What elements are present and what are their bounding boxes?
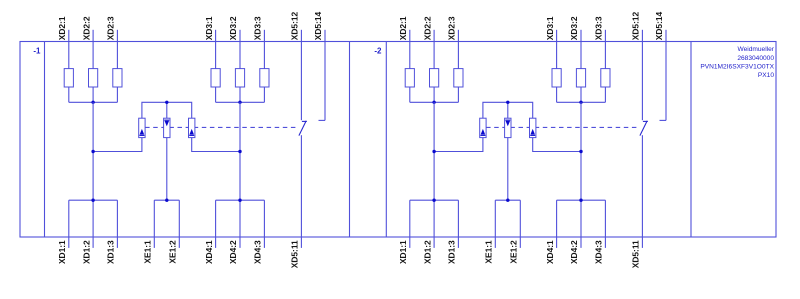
node -2 junction right arrester / XD3:2 line xyxy=(579,150,582,153)
svg-text:PVN1M2I6SXF3V1O0TX: PVN1M2I6SXF3V1O0TX xyxy=(700,64,774,71)
node -1 junction left arrester / XD2:2 line xyxy=(91,150,94,153)
block -1 right enclosure line xyxy=(349,42,351,238)
terminal label -1 XD5:11 xyxy=(290,240,300,268)
wire -2 R2 bottom lead xyxy=(433,87,435,102)
wire -1 XD4 bottom bus xyxy=(216,199,265,201)
terminal label -1 XD1:1 xyxy=(57,240,67,264)
wire -2 XD3:3 terminal stub xyxy=(604,30,606,69)
wire -2 bus joining XD3 resistors xyxy=(557,101,606,103)
surge arrester -2 F3 (up) xyxy=(530,118,536,137)
wire -2 R5 bottom lead xyxy=(580,87,582,102)
wire -2 XD3:1 terminal stub xyxy=(556,30,558,69)
resistor -1 R5 xyxy=(235,69,244,87)
svg-text:XD4:2: XD4:2 xyxy=(228,240,238,264)
svg-text:XD5:14: XD5:14 xyxy=(654,11,664,40)
svg-text:XD1:3: XD1:3 xyxy=(447,240,457,264)
terminal label -1 XD2:3 xyxy=(106,16,116,40)
wire -1 XD3:2 terminal stub xyxy=(239,30,241,69)
wire -1 XD5:11 terminal line xyxy=(300,135,302,248)
wire -2 XD5:11 terminal line xyxy=(641,135,643,248)
svg-text:XD3:3: XD3:3 xyxy=(253,16,263,40)
svg-text:XD2:1: XD2:1 xyxy=(57,16,67,40)
wire -1 right arrester to XD3:2 line xyxy=(192,138,240,152)
block -2 right enclosure line xyxy=(690,42,692,238)
svg-text:Weidmueller: Weidmueller xyxy=(737,46,774,53)
wire -1 dashed trip link to disconnect switch xyxy=(145,126,297,128)
terminal label -1 XE1:2 xyxy=(168,240,178,264)
svg-text:-1: -1 xyxy=(33,46,41,55)
wire -2 XD5:12 terminal line xyxy=(641,30,643,120)
node -1 junction XE1 bus xyxy=(165,199,168,202)
svg-text:XD1:1: XD1:1 xyxy=(398,240,408,264)
svg-text:XD1:2: XD1:2 xyxy=(81,240,91,264)
wire -2 XE1 bottom bus xyxy=(495,199,520,201)
resistor -2 R3 xyxy=(454,69,463,87)
resistor -2 R4 xyxy=(552,69,561,87)
svg-text:XD4:3: XD4:3 xyxy=(594,240,604,264)
wire -2 middle arrester to XE1 bus xyxy=(507,138,509,201)
svg-text:XE1:1: XE1:1 xyxy=(143,240,153,264)
resistor -2 R1 xyxy=(405,69,414,87)
wire -1 XD4:3 terminal leg xyxy=(263,200,265,248)
wire -1 XD1:1 terminal leg xyxy=(68,200,70,248)
terminal label -1 XD1:2 xyxy=(81,240,91,264)
wire -1 middle arrester to XE1 bus xyxy=(166,138,168,201)
resistor -2 R6 xyxy=(601,69,610,87)
node -1 junction XD1 bus xyxy=(91,199,94,202)
node -2 junction XD4 bus xyxy=(579,199,582,202)
wire -2 XD2:2 terminal stub xyxy=(433,30,435,69)
node -1 junction XD2 bus / XD1:2 line xyxy=(91,101,94,104)
wire -1 bus joining XD2 resistors xyxy=(69,101,118,103)
terminal label -1 XD2:1 xyxy=(57,16,67,40)
switch -2 disconnect contact blade xyxy=(640,121,648,136)
device label -1 xyxy=(33,46,41,55)
terminal label -2 XD2:3 xyxy=(447,16,457,40)
terminal label -2 XD3:2 xyxy=(569,16,579,40)
wire -2 right arrester to XD3:2 line xyxy=(533,138,581,152)
svg-text:-2: -2 xyxy=(374,46,382,55)
terminal label -2 XD1:3 xyxy=(447,240,457,264)
svg-text:XD2:2: XD2:2 xyxy=(422,16,432,40)
wire -1 XD2:2-XD1:2 vertical line xyxy=(92,102,94,248)
svg-text:XD4:2: XD4:2 xyxy=(569,240,579,264)
svg-text:XD2:3: XD2:3 xyxy=(447,16,457,40)
wire -2 XD3:2 terminal stub xyxy=(580,30,582,69)
wire -2 XD2:2-XD1:2 vertical line xyxy=(433,102,435,248)
svg-text:XD2:2: XD2:2 xyxy=(81,16,91,40)
surge arrester -1 F3 (up) xyxy=(189,118,195,137)
wire -1 XE1:1 terminal leg xyxy=(153,200,155,248)
part info text order number 2683040000 xyxy=(737,55,774,62)
terminal label -1 XD3:1 xyxy=(204,16,214,40)
node -2 junction left arrester / XD2:2 line xyxy=(432,150,435,153)
wire -1 XD2:3 terminal stub xyxy=(116,30,118,69)
terminal label -2 XD2:1 xyxy=(398,16,408,40)
wire -1 XD3:3 terminal stub xyxy=(263,30,265,69)
svg-text:XD3:2: XD3:2 xyxy=(569,16,579,40)
terminal label -2 XD5:11 xyxy=(631,240,641,268)
wire -2 arrester top bus xyxy=(483,102,533,118)
resistor -2 R5 xyxy=(576,69,585,87)
svg-text:XD1:3: XD1:3 xyxy=(106,240,116,264)
wire -2 XD5:14 terminal line xyxy=(660,30,667,121)
terminal label -1 XD2:2 xyxy=(81,16,91,40)
wire -1 R6 bottom lead xyxy=(263,87,265,102)
wire -1 arrester top bus xyxy=(142,102,192,118)
wire -2 R1 bottom lead xyxy=(409,87,411,102)
part info text type PVN1M2I6SXF3V1O0TX xyxy=(700,64,774,71)
node -1 junction XD4 bus xyxy=(238,199,241,202)
wire -2 XD4:3 terminal leg xyxy=(604,200,606,248)
wire -2 XD1:3 terminal leg xyxy=(457,200,459,248)
wire -2 XD4:1 terminal leg xyxy=(556,200,558,248)
switch -1 disconnect contact blade xyxy=(299,121,307,136)
terminal label -2 XE1:2 xyxy=(509,240,519,264)
svg-text:XE1:1: XE1:1 xyxy=(484,240,494,264)
svg-text:XD5:11: XD5:11 xyxy=(290,240,300,268)
node -1 junction XD3 bus / XD4:2 line xyxy=(238,101,241,104)
svg-text:XD4:1: XD4:1 xyxy=(545,240,555,264)
terminal label -2 XD1:1 xyxy=(398,240,408,264)
svg-text:XD2:1: XD2:1 xyxy=(398,16,408,40)
wire -2 XD3:2-XD4:2 vertical line xyxy=(580,102,582,248)
surge arrester -1 F2 (down) xyxy=(164,118,170,137)
svg-text:XE1:2: XE1:2 xyxy=(168,240,178,264)
svg-text:XD3:2: XD3:2 xyxy=(228,16,238,40)
terminal label -2 XD4:2 xyxy=(569,240,579,264)
terminal label -1 XD4:1 xyxy=(204,240,214,264)
svg-text:XD3:3: XD3:3 xyxy=(594,16,604,40)
surge arrester -2 F2 (down) xyxy=(505,118,511,137)
svg-text:XD2:3: XD2:3 xyxy=(106,16,116,40)
wire -1 XD2:2 terminal stub xyxy=(92,30,94,69)
resistor -1 R4 xyxy=(211,69,220,87)
device label -2 xyxy=(374,46,382,55)
svg-text:XD1:2: XD1:2 xyxy=(422,240,432,264)
wire -2 XD2:1 terminal stub xyxy=(409,30,411,69)
resistor -2 R2 xyxy=(430,69,439,87)
wire -2 left arrester to XD2:2 line xyxy=(434,138,483,152)
svg-text:XD5:12: XD5:12 xyxy=(631,11,641,40)
resistor -1 R3 xyxy=(113,69,122,87)
wire -1 XE1 bottom bus xyxy=(154,199,179,201)
terminal label -1 XD5:14 xyxy=(313,11,323,40)
terminal label -2 XE1:1 xyxy=(484,240,494,264)
part info text PX10 xyxy=(758,72,774,79)
node -2 junction XD1 bus xyxy=(432,199,435,202)
wire -1 bus joining XD3 resistors xyxy=(216,101,265,103)
terminal label -1 XE1:1 xyxy=(143,240,153,264)
wire -1 XD1:3 terminal leg xyxy=(116,200,118,248)
wire -2 R6 bottom lead xyxy=(604,87,606,102)
block -1 left enclosure line xyxy=(44,42,46,238)
terminal label -1 XD4:2 xyxy=(228,240,238,264)
wire -1 XD2:1 terminal stub xyxy=(68,30,70,69)
wire -1 R1 bottom lead xyxy=(68,87,70,102)
wire -1 XD5:12 terminal line xyxy=(300,30,302,120)
resistor -1 R6 xyxy=(260,69,269,87)
wire -2 R4 bottom lead xyxy=(556,87,558,102)
wire -2 XD2:3 terminal stub xyxy=(457,30,459,69)
resistor -1 R2 xyxy=(89,69,98,87)
terminal label -2 XD3:3 xyxy=(594,16,604,40)
node -2 junction XD2 bus / XD1:2 line xyxy=(432,101,435,104)
svg-text:XD1:1: XD1:1 xyxy=(57,240,67,264)
svg-text:XD3:1: XD3:1 xyxy=(204,16,214,40)
terminal label -1 XD3:3 xyxy=(253,16,263,40)
terminal label -2 XD2:2 xyxy=(422,16,432,40)
terminal label -2 XD4:1 xyxy=(545,240,555,264)
wire -1 R5 bottom lead xyxy=(239,87,241,102)
svg-text:XD4:1: XD4:1 xyxy=(204,240,214,264)
wire -2 XD1:1 terminal leg xyxy=(409,200,411,248)
wire -2 bus joining XD2 resistors xyxy=(410,101,459,103)
node -1 junction right arrester / XD3:2 line xyxy=(238,150,241,153)
terminal label -2 XD4:3 xyxy=(594,240,604,264)
terminal label -2 XD1:2 xyxy=(422,240,432,264)
wire -1 XD1 bottom bus xyxy=(69,199,118,201)
wire -1 XD3:2-XD4:2 vertical line xyxy=(239,102,241,248)
node -1 junction arrester bus / middle arrester xyxy=(165,101,168,104)
surge arrester -1 F1 (up) xyxy=(139,118,145,137)
block -2 left enclosure line xyxy=(385,42,387,238)
wire -2 XE1:1 terminal leg xyxy=(494,200,496,248)
wire -2 XD4 bottom bus xyxy=(557,199,606,201)
wire -1 XD3:1 terminal stub xyxy=(215,30,217,69)
wire -2 dashed trip link to disconnect switch xyxy=(486,126,638,128)
wire -2 XD1 bottom bus xyxy=(410,199,459,201)
terminal label -1 XD5:12 xyxy=(290,11,300,40)
part info text Weidmueller xyxy=(737,46,774,53)
terminal label -2 XD3:1 xyxy=(545,16,555,40)
wire -1 XD5:14 terminal line xyxy=(319,30,326,121)
wire -2 XE1:2 terminal leg xyxy=(519,200,521,248)
surge arrester -2 F1 (up) xyxy=(480,118,486,137)
terminal label -2 XD5:12 xyxy=(631,11,641,40)
wire -1 R2 bottom lead xyxy=(92,87,94,102)
terminal label -1 XD4:3 xyxy=(253,240,263,264)
terminal label -1 XD1:3 xyxy=(106,240,116,264)
node -2 junction arrester bus / middle arrester xyxy=(506,101,509,104)
wire -1 XE1:2 terminal leg xyxy=(178,200,180,248)
wire -1 R4 bottom lead xyxy=(215,87,217,102)
svg-text:XD5:14: XD5:14 xyxy=(313,11,323,40)
node -2 junction XE1 bus xyxy=(506,199,509,202)
outer frame border xyxy=(20,42,776,238)
svg-text:XD5:11: XD5:11 xyxy=(631,240,641,268)
terminal label -2 XD5:14 xyxy=(654,11,664,40)
svg-text:XD5:12: XD5:12 xyxy=(290,11,300,40)
wire -1 left arrester to XD2:2 line xyxy=(93,138,142,152)
node -2 junction XD3 bus / XD4:2 line xyxy=(579,101,582,104)
svg-text:XE1:2: XE1:2 xyxy=(509,240,519,264)
svg-text:XD3:1: XD3:1 xyxy=(545,16,555,40)
svg-text:PX10: PX10 xyxy=(758,72,774,79)
wire -1 R3 bottom lead xyxy=(116,87,118,102)
wire -2 R3 bottom lead xyxy=(457,87,459,102)
wire -1 XD4:1 terminal leg xyxy=(215,200,217,248)
svg-text:2683040000: 2683040000 xyxy=(737,55,774,62)
svg-text:XD4:3: XD4:3 xyxy=(253,240,263,264)
resistor -1 R1 xyxy=(64,69,73,87)
terminal label -1 XD3:2 xyxy=(228,16,238,40)
